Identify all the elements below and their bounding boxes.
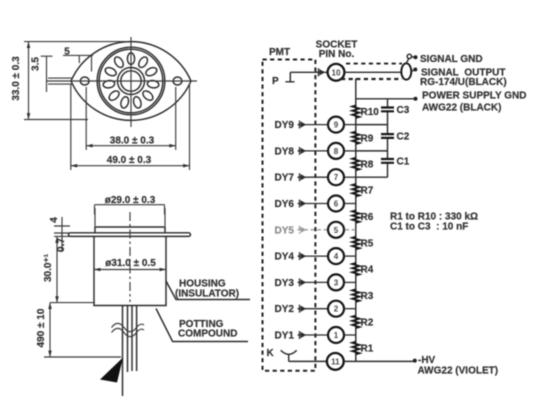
- left ear open slot lines: [48, 78, 72, 84]
- dimension 49.0 +/- 0.3: [71, 84, 190, 170]
- pin slot hole 2: [113, 55, 125, 69]
- svg-text:DY4: DY4: [275, 252, 295, 263]
- resistor R10: [352, 105, 379, 118]
- svg-text:1: 1: [334, 331, 339, 340]
- svg-text:4: 4: [49, 217, 60, 223]
- socket pin 7 circle: [328, 169, 344, 185]
- capacitor chain wire: [356, 99, 388, 177]
- svg-text:DY2: DY2: [275, 304, 295, 315]
- svg-text:R2: R2: [361, 317, 374, 328]
- resistor R5: [352, 237, 374, 250]
- dimension dia 31.0 +/- 0.5: [94, 258, 166, 271]
- svg-text:PIN No.: PIN No.: [319, 49, 355, 60]
- shield tail to signal gnd: [406, 59, 408, 64]
- svg-text:-HV: -HV: [418, 355, 436, 366]
- svg-text:C1 to C3 : 10 nF: C1 to C3 : 10 nF: [390, 222, 468, 233]
- signal gnd open terminal: [407, 54, 411, 58]
- socket pin 2 circle: [328, 301, 344, 317]
- black arrowhead at cable end: [100, 358, 123, 383]
- center boss inner circle: [121, 71, 141, 91]
- dynode DY6 lead and socket contact: [298, 200, 328, 208]
- coax shield dashed bottom: [341, 78, 402, 80]
- svg-text:R10: R10: [361, 107, 380, 118]
- wire pin 7 to divider bus: [345, 176, 356, 178]
- divider bus wire: [355, 79, 357, 362]
- anode contact symbol: [318, 68, 320, 76]
- resistor R4: [352, 263, 374, 276]
- output wires: [123, 306, 137, 397]
- svg-text:P: P: [272, 76, 279, 87]
- socket pin 11 circle: [327, 353, 344, 370]
- coax center conductor: [345, 71, 402, 73]
- resistor R7: [352, 184, 374, 197]
- pin slot hole 11: [137, 55, 149, 69]
- dynode DY1 lead and socket contact: [298, 331, 328, 339]
- svg-text:R3: R3: [361, 291, 374, 302]
- capacitor C2: [381, 132, 410, 143]
- note R and C values: [390, 212, 478, 233]
- socket pin 1 circle: [328, 327, 344, 343]
- node wire DY8 to C1: [356, 150, 388, 152]
- wire pin 8 to divider bus: [345, 150, 356, 152]
- dynode DY7 lead and socket contact: [298, 173, 328, 181]
- dimension 4: [49, 217, 70, 240]
- svg-text:5: 5: [334, 226, 339, 235]
- socket pin 6 circle: [328, 196, 344, 212]
- svg-text:C2: C2: [397, 132, 410, 143]
- wire pin 4 to divider bus: [345, 255, 356, 257]
- svg-text:7: 7: [334, 173, 339, 182]
- label -HV / AWG22 (VIOLET): [418, 355, 499, 377]
- wire pin 1 to divider bus: [345, 334, 356, 336]
- dimension dia 29.0 +/- 0.3: [95, 195, 166, 226]
- svg-text:38.0 ± 0.3: 38.0 ± 0.3: [110, 136, 155, 147]
- coax shield dashed top: [346, 63, 402, 65]
- pin slot hole 8: [141, 89, 154, 102]
- socket pin 8 circle: [328, 143, 344, 159]
- dimension 3.5: [31, 56, 53, 92]
- vertical centerline (dashed): [129, 212, 131, 302]
- photocathode symbol: [281, 350, 297, 361]
- svg-text:PMT: PMT: [269, 47, 290, 58]
- wire pin 3 to divider bus: [345, 281, 356, 283]
- socket flange outline (eye shape, top view): [71, 42, 191, 121]
- socket pin 3 circle: [328, 274, 344, 290]
- svg-text:ø29.0 ± 0.3: ø29.0 ± 0.3: [105, 195, 156, 206]
- dynode DY5 lead and socket contact: [298, 226, 328, 234]
- capacitor C3: [381, 105, 410, 116]
- svg-text:C1: C1: [397, 156, 410, 167]
- svg-text:49.0 ± 0.3: 49.0 ± 0.3: [107, 155, 152, 166]
- dimension 5: [63, 47, 93, 72]
- svg-text:(INSULATOR): (INSULATOR): [175, 289, 239, 300]
- svg-text:8: 8: [334, 147, 339, 156]
- resistor R1: [352, 342, 374, 355]
- svg-text:DY6: DY6: [275, 199, 295, 210]
- resistor R3: [352, 289, 374, 302]
- vertical centerline: [130, 37, 132, 127]
- resistor R6: [352, 210, 374, 223]
- dimension 30.0 +1: [43, 236, 95, 302]
- wire pin 6 to divider bus: [345, 203, 356, 205]
- wire pin 2 to divider bus: [345, 308, 356, 310]
- dynode DY3 lead and socket contact: [298, 278, 328, 286]
- housing label: [175, 279, 239, 300]
- PMT dashed enclosure: [263, 60, 316, 371]
- signal output wire and dot: [411, 70, 413, 71]
- side view flange plate: [69, 233, 191, 237]
- svg-text:5: 5: [64, 47, 70, 58]
- svg-text:DY7: DY7: [275, 173, 295, 184]
- power supply gnd wire and dot: [356, 98, 414, 100]
- svg-text:R4: R4: [361, 265, 374, 276]
- -HV wire and dot: [344, 360, 413, 362]
- node wire DY9 to C2: [356, 124, 388, 126]
- svg-text:10: 10: [332, 68, 341, 77]
- dynode DY4 lead and socket contact: [298, 252, 328, 260]
- cathode lead to pin 11: [289, 360, 327, 362]
- pin slot hole 6: [120, 96, 130, 109]
- side view top cap: [95, 227, 165, 233]
- svg-text:6: 6: [334, 200, 339, 209]
- right mounting ear hole: [173, 77, 182, 85]
- pin slot hole 7: [132, 96, 142, 109]
- svg-text:4: 4: [334, 252, 339, 261]
- pin slot hole 4: [103, 80, 116, 89]
- label SIGNAL OUTPUT / RG-174/U(BLACK): [420, 68, 507, 89]
- socket pin 9 circle: [328, 117, 344, 133]
- svg-text:SIGNAL GND: SIGNAL GND: [420, 54, 483, 65]
- dynode DY2 lead and socket contact: [298, 305, 328, 313]
- label SOCKET PIN No.: [316, 40, 358, 61]
- label POWER SUPPLY GND / AWG22 (BLACK): [422, 91, 526, 114]
- wire pin 9 to divider bus: [345, 124, 356, 126]
- anode symbol and lead: [285, 72, 327, 82]
- pin slot hole 1: [127, 53, 134, 65]
- svg-text:DY5: DY5: [275, 225, 295, 236]
- coax shield ellipse: [401, 63, 411, 79]
- dynode DY8 lead and socket contact: [298, 147, 328, 155]
- svg-text:DY9: DY9: [275, 120, 295, 131]
- pin slot hole 10: [145, 66, 159, 77]
- side view housing body: [94, 236, 166, 305]
- socket inner rim circle: [99, 49, 163, 113]
- socket pin 5 circle: [328, 222, 344, 238]
- dimension 38.0 +/- 0.3: [86, 87, 176, 150]
- svg-text:R7: R7: [361, 186, 374, 197]
- dimension 490 +/- 10: [36, 303, 121, 357]
- svg-text:DY1: DY1: [275, 331, 295, 342]
- svg-text:3.5: 3.5: [31, 57, 42, 71]
- svg-text:R8: R8: [361, 160, 374, 171]
- potting label leader: [156, 309, 248, 342]
- dimension 0.7: [54, 233, 70, 252]
- svg-text:AWG22 (VIOLET): AWG22 (VIOLET): [418, 366, 499, 377]
- signal gnd wire and dot: [412, 56, 414, 59]
- svg-text:R9: R9: [361, 133, 374, 144]
- socket pin 10 circle: [328, 64, 345, 81]
- capacitor C1: [381, 156, 410, 167]
- potting label: [178, 319, 237, 340]
- svg-text:9: 9: [334, 121, 339, 130]
- svg-text:R5: R5: [361, 239, 374, 250]
- cable break mark: [112, 323, 145, 331]
- svg-text:2: 2: [334, 305, 339, 314]
- svg-text:33.0 ± 0.3: 33.0 ± 0.3: [11, 56, 22, 101]
- dynode DY9 lead and socket contact: [298, 121, 328, 129]
- svg-text:POWER SUPPLY GND: POWER SUPPLY GND: [422, 91, 526, 102]
- svg-text:R1: R1: [361, 344, 374, 355]
- svg-text:COMPOUND: COMPOUND: [178, 329, 237, 340]
- svg-text:RG-174/U(BLACK): RG-174/U(BLACK): [420, 77, 507, 88]
- socket outer rim circle: [97, 47, 165, 115]
- pin slot hole 5: [107, 89, 120, 102]
- svg-text:30.0⁺¹: 30.0⁺¹: [43, 253, 54, 282]
- svg-text:R6: R6: [361, 212, 374, 223]
- center boss outer circle: [118, 68, 145, 95]
- svg-text:AWG22 (BLACK): AWG22 (BLACK): [422, 103, 501, 114]
- svg-text:DY8: DY8: [275, 146, 295, 157]
- svg-text:K: K: [267, 348, 275, 359]
- left mounting ear hole: [80, 77, 89, 85]
- svg-text:ø31.0 ± 0.5: ø31.0 ± 0.5: [105, 258, 156, 269]
- horizontal centerline: [46, 80, 197, 82]
- wire pin 5 to divider bus: [345, 229, 356, 231]
- svg-text:11: 11: [331, 357, 340, 366]
- resistor R9: [352, 132, 374, 145]
- pin slot hole 9: [147, 80, 160, 89]
- dimension 33.0 +/- 0.3: [11, 42, 128, 120]
- pin slot hole 3: [104, 66, 118, 77]
- svg-text:490 ± 10: 490 ± 10: [36, 308, 47, 347]
- housing label leader: [166, 281, 250, 300]
- resistor R8: [352, 158, 374, 171]
- svg-text:DY3: DY3: [275, 278, 295, 289]
- svg-text:3: 3: [334, 278, 339, 287]
- svg-text:C3: C3: [397, 105, 410, 116]
- resistor R2: [352, 316, 374, 329]
- socket pin 4 circle: [328, 248, 344, 264]
